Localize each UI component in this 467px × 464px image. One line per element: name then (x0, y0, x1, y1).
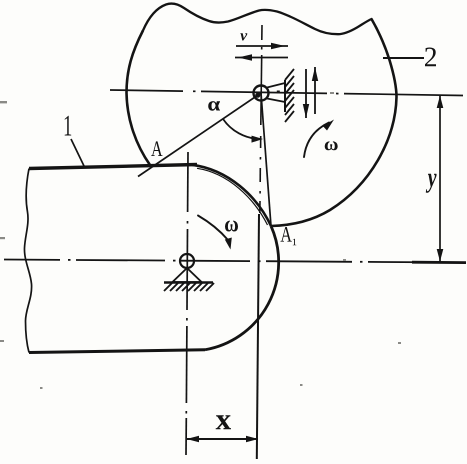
label 2 (425, 48, 436, 67)
radius line from gear 2 center through A (138, 93, 261, 177)
omega arrow of workpiece 1 (198, 216, 228, 241)
wire: wavy break line at top of gear 2 (143, 4, 372, 35)
label x (216, 415, 231, 429)
gear blank 2: left arc of cutting circle (127, 31, 151, 166)
x-dimension right extension line (solid over centerline) (257, 214, 259, 459)
reciprocating stroke symbol: right line with up arrow (312, 67, 318, 114)
reciprocating stroke symbol: left line with down arrow (303, 69, 309, 118)
workpiece horizontal centerline (4, 259, 60, 261)
workpiece 1: left break line (24, 169, 31, 353)
pin joint of gear 2 (254, 86, 269, 101)
label omega (gear 2) (325, 141, 338, 150)
label y (426, 174, 437, 193)
support hatching (285, 69, 294, 122)
cutter horizontal centerline (110, 90, 183, 91)
feed arrows v: label v (240, 33, 247, 40)
cam profile flank thick line (192, 165, 271, 226)
label A1 (281, 227, 292, 242)
line from gear 2 center to A1 (261, 93, 271, 226)
workpiece 1: top edge (29, 165, 197, 169)
omega arrow of gear 2 (304, 123, 329, 158)
label alpha (208, 101, 220, 111)
pivot of workpiece 1 (180, 254, 194, 268)
ground symbol triangle (173, 268, 202, 282)
leader line for label 2 (383, 57, 424, 59)
leader line for label 1 (71, 139, 84, 166)
ground hatching (164, 283, 214, 291)
fixed support bracket at gear 2 pin (267, 83, 285, 102)
workpiece vertical centerline (187, 152, 189, 212)
ground base line (164, 281, 213, 284)
workpiece 1: bottom edge (29, 350, 205, 353)
label A (151, 141, 162, 156)
bracket pin dot (277, 91, 280, 94)
x dimension line (187, 438, 258, 440)
cam profile flank thin inner line (197, 168, 268, 225)
y dimension line (439, 96, 441, 261)
angle alpha arc (223, 119, 260, 139)
cutter vertical centerline (261, 25, 263, 40)
label 1 (65, 116, 72, 136)
support wall (284, 80, 286, 112)
feed arrow lower line (left) (235, 54, 288, 60)
workpiece 1: right side arc (205, 226, 279, 350)
feed arrow upper line (right) (236, 43, 288, 49)
gear blank 2: right arc of cutting circle down to A1 (271, 19, 397, 226)
scan speckles (0, 92, 401, 389)
thick right part of workpiece centerline (dimension reference) (412, 261, 466, 264)
label omega (workpiece) (225, 221, 238, 232)
